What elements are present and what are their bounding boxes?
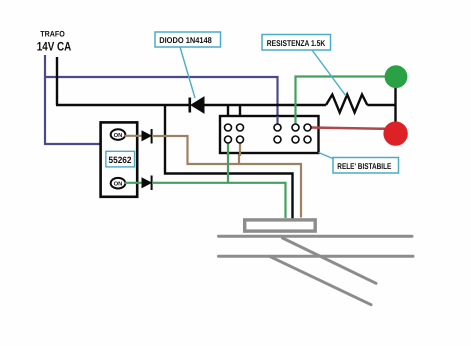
rail: second horizontal (219, 255, 414, 258)
relay pin B4 (292, 136, 299, 143)
svg-text:ON: ON (114, 132, 123, 139)
rail: diverging diagonal upper (283, 238, 377, 283)
svg-text:DIODO 1N4148: DIODO 1N4148 (159, 35, 212, 45)
wire: black AC feed vertical from trafo (56, 57, 58, 105)
wire: black pin stub to relay pin T2 (239, 105, 241, 124)
svg-text:RESISTENZA 1.5K: RESISTENZA 1.5K (267, 38, 326, 48)
point motor box (gray) (245, 220, 316, 231)
wire: black top bus to diode (56, 104, 189, 106)
wire: green from D3 to point motor (152, 183, 286, 218)
button ON (lower) (111, 178, 126, 189)
wire: brown stub relay pin B2 down (239, 143, 241, 156)
svg-text:14V CA: 14V CA (37, 40, 72, 54)
resistor R1 1.5K zigzag (326, 95, 367, 113)
rail: top horizontal (219, 235, 413, 238)
callout leader to relay K1 (319, 153, 335, 160)
wire: blue horizontal bus to relay pin T3 (44, 77, 278, 124)
wire: green from lower ON button to diode D3 (125, 182, 143, 184)
relay pin T4 (292, 124, 299, 131)
diode D1 1N4148 (cathode bar left, triangle pointing left) (190, 97, 204, 113)
relay K1 bistable box (220, 116, 319, 153)
diode D2 (upper, triangle pointing right) (142, 129, 152, 144)
callout leader to resistor R1 (312, 50, 346, 96)
wire: black pin stub to relay pin T1 (227, 105, 229, 124)
wire: black from resistor to lamp node (367, 104, 396, 106)
wire: green vertical from relay pin T4 up and to green lamp (296, 77, 386, 125)
wire: brown branch up to relay pin B2 (238, 143, 240, 164)
relay pin B2 (237, 136, 244, 143)
rail: diverging diagonal lower (270, 256, 372, 304)
wire: blue horizontal into 55262 box (45, 143, 100, 145)
box: control unit 55262 (101, 122, 138, 196)
wire: green branch up to relay pin B1 (227, 143, 229, 183)
callout label RESISTENZA 1.5K (262, 35, 331, 51)
callout label DIODO 1N4148 (155, 32, 221, 47)
relay pin T3 (274, 124, 281, 131)
wire: black bus from diode to resistor (204, 104, 326, 106)
wire: brown from D2 to point motor (152, 136, 301, 218)
callout label RELE' BISTABILE (333, 158, 399, 174)
wire: black vertical between green and red lamps (394, 87, 396, 123)
svg-text:55262: 55262 (109, 155, 132, 165)
wire: green stub relay pin B1 down (227, 143, 229, 156)
relay pin B1 (225, 136, 232, 143)
lamp: green indicator (385, 65, 408, 88)
relay pin B3 (274, 136, 281, 143)
relay pin T2 (237, 124, 244, 131)
wire: blue stub inside relay to pin T3 (redrawn over box) (276, 116, 278, 124)
wire: black branch down from top bus (165, 104, 293, 225)
svg-text:ON: ON (114, 181, 123, 188)
lamp: red indicator (383, 121, 407, 145)
relay pin T1 (225, 124, 232, 131)
callout leader to diode D1 (180, 47, 195, 98)
label 55262 (106, 151, 135, 167)
diode D3 (lower, triangle pointing right) (142, 176, 152, 191)
relay pin T5 (304, 124, 311, 131)
wire: brown from upper ON button to diode D2 (125, 135, 143, 137)
svg-text:TRAFO: TRAFO (40, 30, 65, 39)
wire: blue AC feed vertical from trafo (44, 55, 46, 145)
button ON (upper) (111, 129, 126, 140)
svg-text:RELE' BISTABILE: RELE' BISTABILE (337, 161, 391, 171)
relay pin B5 (304, 136, 311, 143)
wire: red from relay pin T5 to red lamp (311, 128, 386, 129)
